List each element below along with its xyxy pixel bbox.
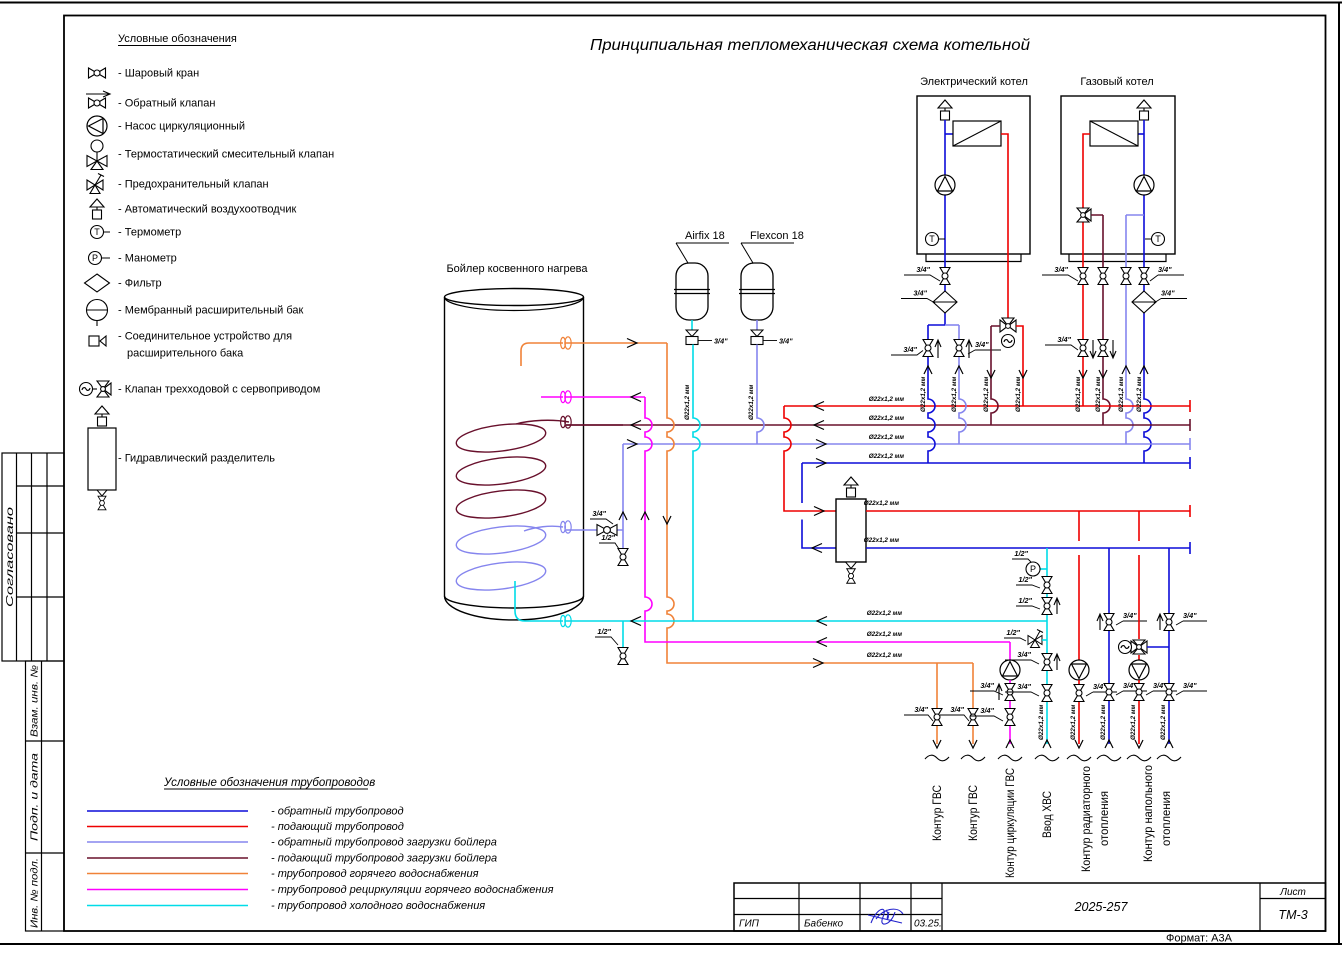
legend check valve symbol [89,98,106,108]
flow arrow up riser x959 [955,366,963,374]
check arrow electric blue riser [935,340,941,358]
svg-text:- подающий трубопровод загруз: - подающий трубопровод загрузки бойлера [271,853,497,865]
svg-text:Ø22х1,2 мм: Ø22х1,2 мм [1070,704,1077,740]
cyan arrow left2 [817,617,827,626]
periwinkle up arrow [619,512,627,520]
expansion vessel Flexcon 18 body [741,263,773,320]
svg-text:3/4": 3/4" [1183,681,1197,690]
DHW circuit valve 2 [968,709,978,726]
svg-text:1/2": 1/2" [597,627,611,636]
check arrow gas red lower [1090,340,1096,358]
boiler port hot water [561,337,572,349]
svg-text:3/4": 3/4" [980,681,994,690]
red separator feed arrow [814,507,824,516]
check arrow floor [1157,614,1163,630]
pipeline legend line подающий трубопровод загрузки бойлера [87,857,248,859]
gas boiler periwinkle pipe [1126,215,1144,444]
gas boiler pedestal [1069,254,1166,262]
DHW break 1 [925,755,949,761]
legend filter symbol [85,274,110,292]
radiator blue valve [1104,684,1114,701]
ball valve electric blue riser [923,340,933,357]
svg-text:Ø22х1,2 мм: Ø22х1,2 мм [920,376,927,412]
recirc break [998,755,1022,761]
hydraulic separator drain valve [846,562,857,569]
svg-text:Контур ГВС: Контур ГВС [968,785,980,841]
svg-text:- Обратный клапан: - Обратный клапан [118,98,215,110]
svg-text:P: P [1030,564,1036,574]
gas 3-way center [1081,213,1086,218]
svg-text:Ø22х1,2 мм: Ø22х1,2 мм [1015,376,1022,412]
svg-text:Инв. № подл.: Инв. № подл. [30,858,41,928]
svg-text:- Соединительное устройство д: - Соединительное устройство для [118,331,292,343]
svg-text:Ø22х1,2 мм: Ø22х1,2 мм [748,384,755,420]
svg-text:Контур радиаторного: Контур радиаторного [1081,766,1093,872]
legend pump symbol [87,116,107,136]
boiler coil upper (maroon) [455,420,569,523]
orange drop 2 [972,663,974,744]
svg-text:Ø22х1,2 мм: Ø22х1,2 мм [1075,376,1082,412]
cyan cold water pipe [566,620,1047,622]
svg-text:3/4": 3/4" [1123,611,1137,620]
svg-text:3/4": 3/4" [916,265,930,274]
pipeline legend line подающий трубопровод [87,826,248,828]
legend hydraulic separator symbol [88,428,116,490]
radiator blue arrow [1105,740,1113,748]
boiler cold inlet dip tube (cyan) [515,581,563,621]
svg-text:Газовый котел: Газовый котел [1080,76,1153,88]
manometer stub [1040,568,1047,570]
blue pipe separator to bus [802,463,836,548]
periwinkle coil drain stub [622,530,624,566]
legend connection device symbol [89,336,106,346]
svg-text:1/2": 1/2" [1014,549,1028,558]
radiator red drop [1078,511,1080,660]
svg-text:Ø22х1,2 мм: Ø22х1,2 мм [1130,704,1137,740]
check arrow cold riser [1054,598,1060,614]
cyan boiler drain stub [622,621,624,664]
svg-text:3/4": 3/4" [714,337,728,346]
cyan arrow left1 [631,617,641,626]
svg-text:Контур ГВС: Контур ГВС [932,785,944,841]
svg-text:3/4": 3/4" [903,345,917,354]
boiler port recirculation [561,391,572,403]
svg-text:3/4": 3/4" [1054,265,1068,274]
svg-text:- Термостатический смесительн: - Термостатический смесительный клапан [118,149,334,161]
electric boiler casing [917,96,1030,254]
radiator blue break [1097,755,1121,761]
svg-text:3/4": 3/4" [592,509,606,518]
svg-text:Ø22х1,2 мм: Ø22х1,2 мм [1160,704,1167,740]
gas boiler maroon pipe [1091,215,1110,425]
svg-text:Ø22х1,2 мм: Ø22х1,2 мм [867,631,903,638]
DHW flow arrow 2 [969,740,977,748]
svg-text:отопления: отопления [1161,791,1173,846]
signature scribble [868,909,903,924]
recirc pipe below pump [1009,680,1011,744]
stamp block Согласовано [2,453,64,661]
svg-text:3/4": 3/4" [950,705,964,714]
maroon coil feed [566,424,623,426]
flow arrow down riser x1103 [1099,370,1107,378]
magenta arrow up [641,512,649,520]
orange arrow top [627,339,637,348]
svg-text:2025-257: 2025-257 [1074,900,1129,914]
cyan drain valve [618,648,628,665]
floor servo drive [1119,641,1132,654]
maroon bus arrow left [631,421,641,430]
legend mixing valve symbol [87,140,107,170]
svg-text:Ø22х1,2 мм: Ø22х1,2 мм [951,376,958,412]
svg-text:1/2": 1/2" [601,533,615,542]
svg-text:Контур напольного: Контур напольного [1143,765,1155,862]
svg-text:3/4": 3/4" [1057,335,1071,344]
gas boiler pump [1134,175,1154,195]
svg-text:1/2": 1/2" [1018,596,1032,605]
electric red branch [1016,326,1023,406]
flow arrow up riser x1126 [1122,366,1130,374]
blue secondary return header [866,542,1190,554]
cold valve lower [1042,685,1052,702]
electric boiler thermometer [926,233,946,246]
svg-text:Контур циркуляции ГВС: Контур циркуляции ГВС [1005,768,1017,878]
floor blue valve [1164,684,1174,701]
boiler port coil return [561,521,572,533]
svg-text:Ввод ХВС: Ввод ХВС [1042,791,1054,838]
svg-text:P: P [92,253,98,263]
legend air vent symbol [90,199,104,219]
flow arrow up riser x928 [924,366,932,374]
svg-text:- Манометр: - Манометр [118,253,177,265]
svg-text:3/4": 3/4" [914,705,928,714]
svg-text:3/4": 3/4" [975,340,989,349]
filter gas [1132,291,1156,313]
radiator blue check [1104,614,1114,631]
radiator blue riser [1108,548,1110,744]
svg-text:3/4": 3/4" [1017,682,1031,691]
recirc flow arrow [1006,740,1014,748]
pipeline legend line трубопровод холодного водоснабжения [87,905,248,907]
svg-text:Ø22х1,2 мм: Ø22х1,2 мм [1095,376,1102,412]
periwinkle drain valve [618,549,628,566]
electric blue tee split [928,324,945,326]
svg-text:Бабенко: Бабенко [804,918,843,930]
stamp strip cells [26,661,65,931]
svg-text:Ø22х1,2 мм: Ø22х1,2 мм [867,610,903,617]
electric boiler heat exchanger [953,121,1001,146]
gas boiler blue pipe [1144,120,1151,463]
svg-text:- обратный трубопровод: - обратный трубопровод [271,806,404,818]
cold riser valve upper [1042,577,1052,594]
svg-text:- Термометр: - Термометр [118,227,181,239]
floor pump [1129,660,1149,680]
DHW break 2 [961,755,985,761]
boiler recirculation stub (magenta) [541,396,563,398]
svg-text:Ø22х1,2 мм: Ø22х1,2 мм [869,415,905,422]
svg-text:- трубопровод рециркуляции го: - трубопровод рециркуляции горячего водо… [271,884,554,896]
radiator red below pump [1078,680,1080,744]
svg-text:- Предохранительный клапан: - Предохранительный клапан [118,179,269,191]
electric boiler pump [935,175,955,195]
svg-text:Ø22х1,2 мм: Ø22х1,2 мм [869,396,905,403]
flow arrow down riser x991 [987,370,995,378]
floor red break [1127,755,1151,761]
electric boiler air vent [938,100,952,120]
legend safety valve symbol [87,174,104,194]
sheet border bottom [0,943,1342,945]
boiler shell [445,297,584,596]
svg-text:3/4": 3/4" [1183,611,1197,620]
svg-text:- Фильтр: - Фильтр [118,278,162,290]
periwinkle boiler-load return bus [623,438,1190,450]
electric maroon branch [991,326,1000,425]
svg-text:Ø22х1,2 мм: Ø22х1,2 мм [864,537,900,544]
svg-text:Ø22х1,2 мм: Ø22х1,2 мм [864,500,900,507]
legend 3-way servo valve symbol [80,381,112,397]
svg-text:Ø22х1,2 мм: Ø22х1,2 мм [1100,704,1107,740]
legend thermometer symbol [91,226,111,239]
legend expansion tank symbol [87,300,108,327]
orange DHW pipe [566,343,973,663]
legend manometer symbol [89,252,111,265]
ball valve electric periwinkle riser [954,340,964,357]
svg-text:- подающий трубопровод: - подающий трубопровод [271,821,404,833]
floor red valve [1134,684,1144,701]
svg-text:T: T [1155,234,1161,244]
ball valve electric blue [940,268,950,285]
boiler coil lower (periwinkle) [455,522,563,595]
cold break [1035,755,1059,761]
electric 3-way mixing valve [1000,318,1016,332]
DHW circuit valve 1 [932,709,942,726]
svg-text:3/4": 3/4" [1161,289,1175,298]
floor blue break [1157,755,1181,761]
check arrow electric periwinkle riser [966,340,972,358]
periwinkle bus arrow left [627,440,637,449]
DHW flow arrow 1 [933,740,941,748]
flow arrow down riser x1083 [1079,370,1087,378]
svg-text:1/2": 1/2" [1018,575,1032,584]
svg-text:ТМ-3: ТМ-3 [1278,908,1307,922]
expansion vessel Flexcon 18 connection device [751,330,763,337]
hydraulic separator air vent [844,477,858,497]
svg-text:Принципиальная тепломеханичес: Принципиальная тепломеханическая схема к… [590,37,1030,54]
svg-text:расширительного бака: расширительного бака [127,348,244,360]
filter electric [933,291,957,313]
flow arrow down riser x1023 [1019,370,1027,378]
recirc drop to pump [1009,642,1011,660]
ball valve gas maroon lower [1098,340,1108,357]
cold check valve lower [1042,654,1052,671]
svg-text:Согласовано: Согласовано [5,506,16,607]
floor red arrow [1135,740,1143,748]
svg-text:3/4": 3/4" [1017,650,1031,659]
radiator red break [1067,755,1091,761]
red supply bus [784,400,1190,412]
svg-text:ГИП: ГИП [739,919,760,930]
svg-text:T: T [929,234,935,244]
periwinkle coil return pipe [566,444,623,530]
electric boiler red pipe [1001,134,1008,318]
ball valve gas maroon [1098,268,1108,285]
electric boiler blue pipe [944,120,946,325]
ball valve gas red [1078,268,1088,285]
periwinkle coil valve [597,525,617,536]
periwinkle bus arrow mid [816,440,826,449]
floor blue arrow [1165,740,1173,748]
legend ball valve symbol [89,68,106,78]
electric boiler pedestal [926,254,1021,262]
electric periwinkle riser [959,325,966,444]
svg-text:Airfix 18: Airfix 18 [685,230,725,242]
svg-text:3/4": 3/4" [980,706,994,715]
svg-text:Ø22х1,2 мм: Ø22х1,2 мм [869,434,905,441]
svg-text:- Мембранный расширительный б: - Мембранный расширительный бак [118,305,303,317]
svg-text:3/4": 3/4" [1158,265,1172,274]
radiator red valve [1074,685,1084,702]
boiler port cold water [561,615,572,627]
pipeline legend line трубопровод горячего водоснабжения [87,873,248,875]
cold flow arrow [1043,740,1051,748]
svg-text:03.25.: 03.25. [914,919,942,930]
svg-text:Формат: А3А: Формат: А3А [1166,933,1233,945]
red bus arrow [814,402,824,411]
flow arrow up riser x1144 [1140,366,1148,374]
maroon boiler-load supply bus [566,419,1190,431]
safety valve [1028,630,1043,648]
svg-text:Взам. инв. №: Взам. инв. № [30,665,41,737]
svg-text:T: T [94,227,100,237]
red pipe bus to separator [784,406,836,511]
svg-text:Ø22х1,2 мм: Ø22х1,2 мм [1038,704,1045,740]
airfix cyan drop [693,345,700,622]
ball valve gas periwinkle [1121,268,1131,285]
svg-text:Flexcon 18: Flexcon 18 [750,230,804,242]
sheet border right [1338,3,1340,945]
recirc valve upper [1005,684,1015,701]
magenta arrow left [817,638,827,647]
svg-text:3/4": 3/4" [913,289,927,298]
blue return bus [802,457,1190,469]
floor red drop [1138,511,1140,639]
ball valve gas blue [1139,268,1149,285]
check arrow gas maroon lower [1110,340,1116,358]
svg-text:Лист: Лист [1279,887,1306,898]
boiler port coil supply [561,416,572,428]
expansion vessel Flexcon 18 drop pipe [756,320,758,336]
sheet border top [0,2,1342,4]
floor blue bridge [1147,646,1169,648]
svg-text:- обратный трубопровод загруз: - обратный трубопровод загрузки бойлера [271,837,497,849]
svg-text:Подп. и дата: Подп. и дата [30,752,41,841]
blue separator return arrow [812,544,822,553]
svg-text:Ø22х1,2 мм: Ø22х1,2 мм [1136,376,1143,412]
magenta arrow top [631,393,641,402]
title block grid [734,883,1326,931]
svg-text:Бойлер косвенного нагрева: Бойлер косвенного нагрева [446,263,588,275]
svg-text:отопления: отопления [1099,791,1111,846]
gas boiler casing [1061,96,1175,254]
orange drop 1 [936,663,938,744]
svg-text:- Насос циркуляционный: - Насос циркуляционный [118,121,245,133]
floor red below pump [1138,680,1140,744]
svg-text:- Автоматический воздухоотвод: - Автоматический воздухоотводчик [118,204,297,216]
orange arrow right [813,659,823,668]
blue bus arrow [816,459,826,468]
maroon bus arrow mid [814,421,824,430]
gas boiler air vent [1137,100,1151,120]
svg-text:1/2": 1/2" [1006,628,1020,637]
radiator pump [1069,660,1089,680]
check arrow radiator [1097,614,1103,630]
svg-text:3/4": 3/4" [779,337,793,346]
red secondary supply header [866,505,1190,517]
electric 3-way servo drive [1002,335,1015,348]
cold water riser [1046,548,1048,744]
pipeline legend line обратный трубопровод загрузки бойлера [87,841,248,843]
cold riser check valve [1042,598,1052,615]
magenta recirc pipe [566,397,1010,642]
svg-text:Ø22х1,2 мм: Ø22х1,2 мм [869,453,905,460]
svg-text:Условные обозначения: Условные обозначения [118,33,237,45]
svg-text:Ø22х1,2 мм: Ø22х1,2 мм [983,376,990,412]
svg-text:Условные обозначения трубопров: Условные обозначения трубопроводов [163,777,375,789]
pipeline legend line трубопровод рециркуляции горячего водоснабжения [87,889,248,891]
svg-text:Ø22х1,2 мм: Ø22х1,2 мм [867,652,903,659]
gas boiler thermometer [1145,233,1165,246]
svg-text:Электрический котел: Электрический котел [920,76,1028,88]
gas boiler 3-way valve [1077,208,1091,222]
boiler DHW outlet dip tube (orange) [521,343,563,366]
ball valve gas red lower [1078,340,1088,357]
floor red to pump [1138,655,1140,660]
svg-text:- трубопровод горячего водосн: - трубопровод горячего водоснабжения [271,868,479,880]
pipeline legend line обратный трубопровод [87,810,248,812]
expansion vessel Airfix 18 body [676,263,708,320]
hydraulic separator vessel [836,499,866,562]
svg-text:- Гидравлический разделитель: - Гидравлический разделитель [118,453,275,465]
check arrow cold lower [1054,654,1060,670]
recirc valve lower [1005,709,1015,726]
gas boiler red pipe [1083,134,1090,406]
expansion vessel Airfix 18 drop pipe [691,320,693,336]
floor blue check [1164,614,1174,631]
floor 3-way valve [1131,640,1147,654]
flexcon periwinkle drop [757,345,764,445]
expansion vessel Airfix 18 connection device [686,330,698,337]
manometer [1026,562,1040,576]
svg-text:Ø22х1,2 мм: Ø22х1,2 мм [684,384,691,420]
svg-text:- Шаровый кран: - Шаровый кран [118,68,199,80]
orange arrow down [663,516,671,524]
svg-text:- Клапан трехходовой с сервоп: - Клапан трехходовой с сервоприводом [118,384,320,396]
recirc pump [1000,660,1020,680]
floor blue riser [1168,548,1170,744]
svg-text:Ø22х1,2 мм: Ø22х1,2 мм [1118,376,1125,412]
svg-text:- трубопровод холодного водос: - трубопровод холодного водоснабжения [271,900,485,912]
electric blue riser [928,325,935,463]
radiator red arrow [1075,740,1083,748]
gas boiler heat exchanger [1090,121,1138,146]
